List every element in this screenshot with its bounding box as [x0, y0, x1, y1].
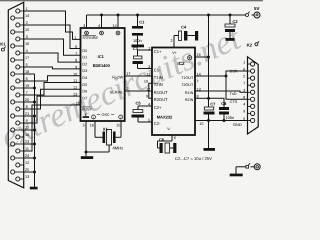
K1 pin 2: [16, 21, 28, 27]
IC2 R2OUT label: [154, 97, 168, 102]
node top rail junction: [229, 14, 232, 17]
svg-text:FLOW: FLOW: [112, 76, 123, 80]
K2 pin 3: [243, 89, 255, 95]
svg-text:3: 3: [243, 89, 245, 93]
IC1 OSC label: [92, 113, 123, 120]
svg-text:R1IN: R1IN: [185, 91, 194, 95]
svg-text:D7: D7: [82, 96, 87, 100]
svg-text:7: 7: [197, 80, 199, 84]
capacitor C5: [158, 135, 174, 153]
wire K1 pin 25 to ground bus: [24, 171, 36, 174]
IC2 T1OUT label: [181, 76, 194, 80]
ground C4: [195, 31, 198, 41]
K1 pin 16: [11, 42, 30, 48]
svg-text:8: 8: [243, 96, 245, 100]
svg-text:7: 7: [75, 52, 77, 56]
IC1 pin8 number: [75, 59, 77, 63]
wire K1 pin 23 to ground bus: [24, 143, 36, 146]
svg-text:17: 17: [25, 56, 29, 60]
svg-text:14: 14: [25, 14, 29, 18]
wire K1 pin 20 to ground bus: [24, 101, 36, 104]
IC2 pin1 number left: [148, 46, 150, 50]
capacitor C3: [132, 101, 153, 123]
svg-text:D0: D0: [82, 49, 87, 53]
svg-text:16: 16: [90, 124, 94, 128]
IC1 BUSY label: [82, 107, 93, 112]
node top rail junction: [207, 14, 210, 17]
wire +5V top rail: [87, 14, 247, 16]
K1 pin 7: [16, 91, 28, 97]
svg-text:9: 9: [146, 95, 148, 99]
K2 label: [247, 43, 253, 48]
K1 pin 21: [11, 112, 30, 118]
svg-text:9: 9: [243, 110, 245, 114]
K2 pin 2: [243, 74, 255, 80]
svg-text:D2: D2: [82, 62, 87, 66]
IC1 D3 label: [82, 69, 87, 73]
wire K1 pin 24 to ground bus: [24, 157, 36, 160]
IC1 SERIAL label: [110, 91, 124, 95]
capacitor C1 100n with ground: [132, 15, 146, 47]
IC2 C1- label: [154, 67, 161, 72]
svg-text:2: 2: [243, 74, 245, 78]
IC1 power pin 3: [83, 15, 88, 35]
svg-text:K1: K1: [0, 42, 6, 47]
wire K1 pin 21 to ground bus: [24, 115, 36, 118]
svg-text:7: 7: [243, 81, 245, 85]
svg-text:6: 6: [243, 67, 245, 71]
svg-text:15: 15: [25, 28, 29, 32]
K2 pin 8: [243, 96, 255, 102]
K1 pin 14: [11, 14, 30, 20]
wire +5V rail down right: [208, 15, 210, 98]
IC2 R1OUT label: [154, 90, 168, 95]
IC1 pin9 number: [75, 66, 77, 70]
IC2 T2IN label: [154, 82, 163, 87]
wire T1OUT branch DSR/CTS: [226, 71, 248, 99]
resonator X1 4MHz: [83, 121, 124, 156]
svg-text:MAX232: MAX232: [157, 114, 173, 119]
svg-text:D1: D1: [82, 56, 87, 60]
svg-text:R2OUT: R2OUT: [154, 97, 168, 102]
capacitor C8 100n: [219, 101, 234, 120]
svg-text:R2IN: R2IN: [185, 98, 194, 102]
svg-text:C4: C4: [181, 25, 187, 30]
IC1 pin6 number: [75, 45, 77, 49]
wire IC2 R1IN to K2 TxD: [195, 91, 248, 92]
IC2 V- label: [167, 127, 171, 131]
svg-text:D3: D3: [82, 69, 87, 73]
wire IC1 FLOW to IC2 T1IN: [125, 75, 152, 77]
IC2 pin13 number right: [197, 87, 201, 91]
svg-text:18: 18: [76, 101, 80, 105]
K2 pin 4: [243, 103, 255, 109]
ground C5: [173, 143, 176, 153]
svg-text:CTS: CTS: [230, 100, 238, 104]
K1 pin 20: [11, 98, 30, 104]
svg-text:2: 2: [126, 87, 128, 91]
node top rail junction: [117, 14, 120, 17]
K2 plug symbol: [255, 41, 259, 46]
svg-text:D5: D5: [82, 83, 87, 87]
svg-text:EDE1400: EDE1400: [93, 63, 111, 68]
wire K1 pin 22 to ground bus: [24, 129, 36, 132]
K1 pin 12: [16, 161, 29, 167]
svg-text:13: 13: [25, 175, 29, 179]
ground K1 bus: [30, 187, 38, 190]
wire K1 pin 9 to IC1 D7: [24, 96, 81, 123]
K1 plug symbol: [1, 47, 5, 52]
IC2 C2+ label: [154, 105, 162, 110]
svg-text:K2: K2: [247, 43, 253, 48]
IC2 C2- label: [154, 121, 161, 126]
IC2 C1+ label: [154, 49, 162, 54]
K2 pin 5: [243, 117, 255, 123]
connector K2 body: [248, 57, 259, 134]
svg-text:3: 3: [83, 24, 85, 28]
IC1 pin12 number: [73, 86, 77, 90]
watermark extremecircuits.net: [0, 19, 247, 156]
svg-text:8: 8: [75, 59, 77, 63]
IC2 pin5 number left: [148, 118, 150, 122]
K1 pin 8: [16, 105, 28, 111]
IC1 D6 label: [82, 90, 87, 94]
svg-text:1: 1: [74, 36, 76, 40]
K1 pin 18: [11, 70, 30, 76]
IC2 pin2 number: [170, 39, 172, 43]
K2 pin 7: [243, 81, 255, 87]
K1 pin 5: [16, 63, 28, 69]
svg-text:5V: 5V: [254, 6, 259, 11]
svg-text:T1OUT: T1OUT: [181, 76, 194, 80]
svg-text:V+: V+: [172, 51, 177, 55]
wire K1 pin 6 to IC1 D4: [24, 76, 81, 81]
IC2 pin3 number left: [148, 65, 150, 69]
IC1 D1 label: [82, 56, 87, 60]
svg-text:C6: C6: [159, 137, 165, 142]
K2 TxD label: [230, 92, 237, 96]
wire K1 pin1 to IC1 STROBE: [24, 11, 81, 39]
svg-text:11: 11: [73, 79, 77, 83]
wire K1 pin 2 to IC1 D0: [24, 25, 81, 49]
svg-text:X1: X1: [103, 126, 109, 131]
svg-text:4: 4: [98, 24, 100, 28]
svg-text:C3: C3: [133, 46, 139, 51]
svg-text:5: 5: [83, 124, 85, 128]
IC1 FLOW label: [112, 76, 123, 80]
IC2 R1IN label: [185, 91, 194, 95]
svg-text:SERIAL: SERIAL: [110, 91, 124, 95]
IC1 STROBE label: [82, 35, 98, 40]
K1 pin 10: [16, 133, 29, 139]
wire ground rail: [195, 119, 248, 127]
svg-text:C2-: C2-: [154, 121, 161, 126]
svg-text:DSR: DSR: [230, 69, 238, 73]
svg-text:T2IN: T2IN: [154, 82, 163, 87]
svg-text:IC2: IC2: [177, 61, 185, 66]
svg-text:STROBE: STROBE: [82, 36, 98, 40]
K1 pin 25: [11, 168, 30, 174]
svg-text:10: 10: [144, 80, 148, 84]
IC2 pin7 number right: [197, 80, 199, 84]
svg-text:R1OUT: R1OUT: [154, 90, 168, 95]
svg-text:C1-: C1-: [154, 67, 161, 72]
IC2 pin12 number left: [146, 87, 150, 91]
wire K1 pin 8 to IC1 D6: [24, 89, 81, 109]
wire IC2 pin16 VCC: [195, 56, 210, 59]
K1 pin 11: [16, 147, 29, 153]
svg-text:6: 6: [174, 136, 176, 140]
wire K1 pin 7 to IC1 D5: [24, 83, 81, 96]
capacitor C4: [174, 25, 195, 48]
IC2 pin8 number right: [197, 95, 199, 99]
svg-text:BUSY: BUSY: [82, 107, 93, 111]
IC1 pin18 number: [76, 101, 80, 105]
wire K1 pin 5 to IC1 D3: [24, 67, 81, 69]
IC1 power pin 4: [98, 15, 103, 35]
svg-text:12: 12: [25, 161, 29, 165]
capacitor C2: [133, 46, 153, 68]
K2 pin 6: [243, 67, 255, 73]
svg-text:C8: C8: [221, 101, 227, 106]
svg-text:T2OUT: T2OUT: [181, 83, 194, 87]
svg-text:C2...C7 = 10u / 25V: C2...C7 = 10u / 25V: [175, 156, 212, 161]
K1 ground bus wire: [24, 74, 35, 187]
svg-text:15: 15: [199, 122, 203, 126]
svg-text:TxD: TxD: [230, 92, 237, 96]
IC1 pin13 number: [73, 93, 77, 97]
IC1 pin17 number: [126, 72, 130, 76]
K1 pin 24: [11, 154, 30, 160]
svg-text:100n: 100n: [226, 115, 235, 120]
IC2 T2OUT label: [181, 83, 194, 87]
K1 pin 17: [11, 56, 30, 62]
svg-text:4: 4: [243, 103, 245, 107]
IC1 pin11 number: [73, 79, 77, 83]
wire K1 pin11 to IC1 BUSY: [24, 105, 81, 151]
node top rail junction: [136, 14, 139, 17]
svg-text:6: 6: [75, 45, 77, 49]
K1 pin 4: [16, 49, 28, 55]
svg-text:D6: D6: [82, 90, 87, 94]
K1 pin 3: [16, 35, 28, 41]
IC2 T1IN label: [154, 75, 163, 80]
K1 pin 19: [11, 84, 30, 90]
svg-text:T1IN: T1IN: [154, 75, 163, 80]
capacitor C7: [204, 98, 217, 120]
ground 0V: [230, 174, 243, 177]
5V plug symbol: [246, 12, 250, 17]
ground IC2 rail: [204, 148, 216, 151]
IC2 vcc circled plus: [188, 56, 192, 60]
svg-text:10: 10: [73, 72, 77, 76]
IC1 power pin 14: [112, 15, 119, 35]
K1 pin 6: [16, 77, 28, 83]
K1 label: [0, 42, 6, 47]
svg-text:16: 16: [25, 42, 29, 46]
svg-text:C1+: C1+: [154, 49, 162, 54]
svg-text:14: 14: [112, 24, 116, 28]
ground IC1/X1: [81, 156, 93, 159]
svg-text:C2+: C2+: [154, 105, 162, 110]
K2 CTS label: [230, 100, 238, 104]
svg-text:OSC: OSC: [102, 113, 110, 117]
svg-text:C7: C7: [210, 102, 216, 107]
node top rail junction: [100, 14, 103, 17]
IC2 pin10 number left: [144, 80, 148, 84]
IC2 V+ label: [172, 51, 177, 55]
svg-text:9: 9: [75, 66, 77, 70]
wire IC2 T2IN to R2OUT loop: [149, 83, 152, 98]
K1 pin 23: [11, 140, 30, 146]
K2 DSR label: [230, 69, 238, 73]
svg-text:D4: D4: [82, 76, 87, 80]
svg-text:1: 1: [243, 60, 245, 64]
svg-text:5: 5: [243, 117, 245, 121]
IC1 D4 label: [82, 76, 87, 80]
wire K1 pin 4 to IC1 D2: [24, 53, 81, 62]
terminal 0V: [236, 163, 260, 173]
label capacitor values: [175, 156, 212, 161]
IC1 pin2 number: [126, 87, 128, 91]
connector K1 body: [8, 2, 23, 188]
IC2 pin11 number left: [146, 72, 150, 76]
IC2 pin16 number right: [197, 53, 201, 57]
wire R2IN node to C8: [209, 98, 225, 107]
K2 pin 9: [243, 110, 255, 116]
ground C6: [226, 38, 235, 41]
wire K1 pin 19 to ground bus: [24, 87, 36, 90]
wire IC2 R2IN to +5V: [195, 97, 210, 100]
IC1 pin10 number: [73, 72, 77, 76]
IC1 D5 label: [82, 83, 87, 87]
IC1 internal ground mark: [83, 113, 89, 117]
svg-text:15: 15: [116, 124, 120, 128]
IC1 pin1 number: [74, 36, 76, 40]
IC2 pin4 number left: [148, 102, 150, 106]
wire IC1 SERIAL to IC2 R1OUT: [125, 90, 152, 92]
svg-text:C1: C1: [139, 20, 145, 25]
K2 pin 1: [243, 60, 255, 66]
svg-text:GND: GND: [233, 122, 242, 127]
IC1 D7 label: [82, 96, 87, 100]
K1 pin 1: [16, 7, 28, 13]
wire ground drop: [208, 121, 210, 149]
IC2 pin14 number right: [197, 72, 201, 76]
svg-text:10: 10: [25, 133, 29, 137]
IC1 pin7 number: [75, 52, 77, 56]
svg-text:17: 17: [126, 72, 130, 76]
svg-text:13: 13: [73, 93, 77, 97]
terminal +5V: [252, 6, 261, 18]
IC2 R2IN label: [185, 98, 194, 102]
wire K1 pin 3 to IC1 D1: [24, 39, 81, 55]
svg-text:12: 12: [73, 86, 77, 90]
wire IC2 T1OUT to K2: [195, 75, 227, 78]
IC2 pin6 number: [174, 136, 176, 140]
IC2 pin9 number left: [146, 95, 148, 99]
K1 pin 9: [16, 119, 28, 125]
K1 pin 22: [11, 126, 30, 132]
svg-text:4MHz: 4MHz: [113, 145, 124, 150]
IC1 D2 label: [82, 62, 87, 66]
svg-text:C2: C2: [233, 19, 239, 24]
K1 pin 15: [11, 28, 30, 34]
IC2 pin15 number: [199, 122, 203, 126]
svg-text:C5: C5: [136, 101, 142, 106]
K1 pin 13: [16, 175, 29, 181]
top frame line: [0, 0, 263, 2]
op IC1 EDE1400 box: [81, 28, 125, 121]
svg-text:IC1: IC1: [98, 54, 105, 59]
svg-text:2: 2: [170, 39, 172, 43]
capacitor C6: [225, 15, 238, 38]
IC1 D0 label: [82, 49, 87, 53]
op IC2 MAX232 box: [152, 48, 195, 136]
